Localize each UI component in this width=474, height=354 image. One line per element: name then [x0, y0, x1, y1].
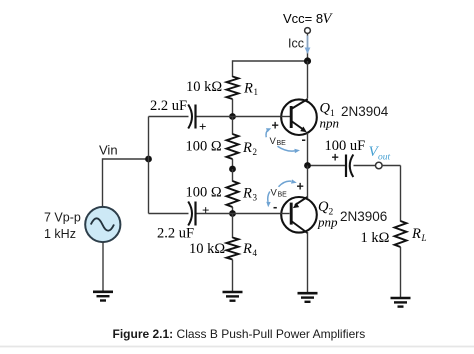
wire Vcc drop — [307, 34, 309, 61]
svg-text:Figure 2.1: Class B Push-Pull: Figure 2.1: Class B Push-Pull Power Ampl… — [113, 327, 366, 341]
svg-text:10 kΩ: 10 kΩ — [186, 79, 222, 95]
wire R4 bottom lead — [232, 260, 234, 293]
label RL — [411, 226, 427, 243]
svg-text:-: - — [302, 132, 306, 147]
svg-text:R: R — [242, 186, 252, 202]
svg-text:2N3904: 2N3904 — [341, 104, 389, 119]
svg-text:10 kΩ: 10 kΩ — [189, 241, 225, 257]
label R4 — [242, 241, 258, 258]
svg-text:R: R — [243, 81, 253, 97]
wire Q1 base row (cap to junction to base) — [149, 116, 291, 118]
wire Q2 base row (cap to junction to base) — [149, 213, 289, 215]
svg-text:100 Ω: 100 Ω — [186, 139, 222, 155]
wire RL bottom lead — [400, 247, 402, 298]
svg-text:V: V — [270, 136, 277, 147]
node Vcc rail junction — [304, 57, 311, 64]
svg-text:Q: Q — [320, 101, 331, 117]
svg-text:out: out — [378, 153, 391, 163]
label R2 — [242, 140, 257, 157]
label Vout — [369, 144, 391, 163]
wire R3 top lead — [232, 169, 234, 182]
label VBE (Q1) — [270, 136, 287, 147]
svg-text:+: + — [297, 180, 304, 194]
node A: Q1 base junction — [229, 113, 236, 120]
svg-text:V: V — [271, 188, 278, 199]
svg-text:Vin: Vin — [99, 143, 118, 158]
svg-text:4: 4 — [253, 248, 258, 258]
Icc current arrow — [305, 36, 311, 55]
resistor R1 — [227, 77, 239, 100]
wire R2 bottom lead — [232, 159, 234, 169]
wire R4 top lead — [232, 214, 234, 239]
svg-text:2.2 uF: 2.2 uF — [157, 226, 194, 242]
svg-text:+: + — [272, 119, 279, 133]
label R3 — [242, 186, 258, 203]
caption — [113, 327, 366, 341]
svg-text:Icc: Icc — [288, 37, 304, 51]
svg-text:100 Ω: 100 Ω — [186, 185, 222, 201]
wire Q2 emitter riser — [307, 166, 309, 199]
transistor Q1 (npn 2N3904) — [281, 99, 317, 135]
VBE arrow down to - (Q2) — [266, 192, 270, 208]
svg-text:Vcc= 8: Vcc= 8 — [283, 11, 323, 26]
wire Q2 collector drop — [307, 232, 309, 293]
svg-text:pnp: pnp — [317, 215, 338, 230]
ground (below Q2) — [298, 293, 318, 302]
svg-text:BE: BE — [278, 192, 288, 199]
capacitor C2 2.2uF — [188, 202, 195, 226]
wire Vin row (source to splitter) — [103, 158, 149, 208]
source V1 sine — [85, 207, 120, 242]
wire Q1 emitter drop — [307, 133, 309, 166]
resistor R3 — [227, 181, 239, 207]
ground (below RL) — [391, 298, 411, 307]
VBE arrow up-right to + (Q2) — [279, 179, 297, 186]
node R2/R3 junction — [229, 166, 236, 173]
VBE arrow right to emitter (Q1) — [278, 146, 301, 153]
svg-text:R: R — [242, 241, 252, 257]
svg-text:1: 1 — [254, 87, 259, 97]
wire source bottom lead — [102, 242, 104, 291]
wire R3 bottom lead — [232, 207, 234, 214]
VBE arrow up to + (Q1) — [266, 128, 271, 137]
ground (below R4) — [223, 292, 243, 301]
label R1 — [243, 81, 258, 98]
label Q1 — [320, 101, 336, 120]
wire output row — [308, 165, 376, 167]
resistor R2 — [227, 134, 239, 159]
svg-text:Q: Q — [318, 199, 329, 215]
svg-text:2.2 uF: 2.2 uF — [150, 98, 187, 114]
transistor Q2 (pnp 2N3906) — [281, 197, 317, 233]
wire R2 top lead — [232, 117, 234, 135]
wire top rail — [233, 60, 308, 62]
wire Q1 collector riser — [307, 61, 309, 99]
label VBE (Q2) — [271, 188, 288, 199]
svg-text:2N3906: 2N3906 — [340, 209, 387, 224]
node B: Q2 base junction — [229, 210, 236, 217]
svg-text:R: R — [242, 140, 252, 156]
wire R1 bottom lead — [232, 99, 234, 117]
wire Vout to RL — [383, 166, 401, 222]
svg-text:7 Vp-p: 7 Vp-p — [44, 211, 81, 225]
svg-text:V: V — [323, 11, 334, 27]
svg-text:npn: npn — [320, 116, 340, 131]
svg-text:+: + — [199, 119, 206, 134]
wire R1 top lead — [232, 60, 234, 77]
Vcc terminal — [305, 28, 311, 34]
svg-text:2: 2 — [253, 147, 258, 157]
svg-text:1 kHz: 1 kHz — [44, 227, 76, 241]
svg-text:L: L — [421, 233, 427, 243]
svg-text:+: + — [202, 203, 209, 218]
capacitor C3 100uF — [346, 155, 353, 178]
resistor RL — [395, 221, 407, 247]
svg-text:R: R — [411, 226, 421, 242]
svg-text:-: - — [273, 199, 277, 214]
label Vcc= 8V — [283, 11, 334, 27]
svg-text:3: 3 — [253, 193, 258, 203]
page rule line — [0, 346, 474, 348]
capacitor C1 2.2uF — [188, 105, 195, 129]
label Q2 — [318, 199, 334, 218]
resistor R4 — [227, 238, 239, 260]
svg-text:1 kΩ: 1 kΩ — [361, 230, 390, 246]
node Vin splitter junction — [145, 156, 152, 163]
wire input riser — [148, 117, 150, 214]
node output junction — [304, 162, 311, 169]
ground (below source) — [93, 292, 113, 301]
terminal Vout — [376, 162, 383, 169]
svg-text:100 uF: 100 uF — [325, 138, 366, 154]
